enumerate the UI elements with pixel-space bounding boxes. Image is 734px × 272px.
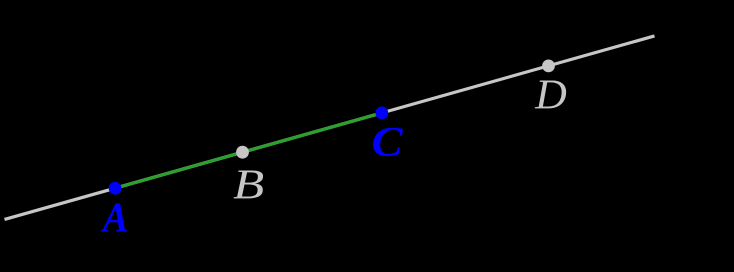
point B [236, 146, 249, 159]
segment A C (green) [115, 113, 382, 188]
point C [375, 107, 388, 120]
point D [542, 59, 555, 72]
svg-text:B: B [233, 162, 264, 209]
svg-text:C: C [372, 118, 404, 165]
line through A B C D [5, 36, 655, 220]
svg-text:D: D [534, 72, 567, 118]
svg-text:A: A [100, 194, 128, 241]
point A [109, 182, 122, 195]
